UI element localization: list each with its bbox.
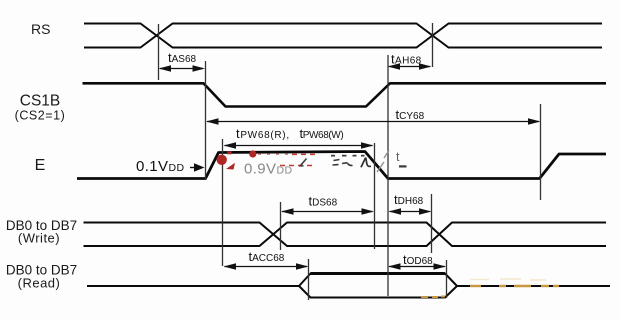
dark watermark equals mark xyxy=(333,160,340,166)
dark watermark slash mark left xyxy=(299,159,307,166)
vertical reference line at DBW valid (tDS left) xyxy=(280,202,282,250)
vertical reference line at CS1B fall / E rise start xyxy=(205,61,207,180)
orange watermark dashes on DB read hi-Z line right xyxy=(470,285,559,287)
svg-text:RS: RS xyxy=(31,21,50,37)
vertical reference line at E rise end xyxy=(222,139,224,266)
dark watermark A-like mark xyxy=(361,158,371,168)
DB0-DB7 Write waveform bus with two crossovers xyxy=(84,223,607,247)
tPW68(R) label xyxy=(236,126,290,141)
tDH68 dimension arrow xyxy=(389,208,432,214)
tAS68 dimension arrow xyxy=(159,65,206,71)
tPW68(W) label xyxy=(300,126,344,141)
E waveform xyxy=(77,152,606,179)
vertical reference line at DBR release (tOD right) xyxy=(446,260,448,298)
tAS68 label xyxy=(168,50,197,65)
svg-text:(CS2=1): (CS2=1) xyxy=(15,109,66,123)
dark nubs under E high line xyxy=(331,155,365,157)
svg-text:CS1B: CS1B xyxy=(20,93,61,110)
vertical reference line at RS change 1 xyxy=(158,24,160,80)
label CS1B xyxy=(20,93,61,110)
red dashed watermark line under E high xyxy=(280,154,319,165)
gray watermark t glyph xyxy=(396,150,407,168)
tACC68 dimension arrow xyxy=(224,263,309,269)
tPW68 dimension arrow xyxy=(224,142,374,148)
tACC68 label xyxy=(249,249,285,264)
label DB0 to DB7 (Read) xyxy=(6,263,77,291)
gray dashed diagonals across E fall xyxy=(377,151,389,173)
label DB0 to DB7 (Write) xyxy=(6,218,77,246)
vertical reference line at DBR valid (tACC right) xyxy=(308,259,310,300)
label (CS2=1) xyxy=(15,109,66,123)
svg-text:E: E xyxy=(35,157,46,174)
tOD68 label xyxy=(403,252,433,267)
tDH68 label xyxy=(394,192,424,207)
svg-text:t: t xyxy=(396,150,400,164)
tDS68 label xyxy=(309,194,338,209)
faint red flecks under E high line xyxy=(258,153,288,155)
dark watermark tilde-comma mark xyxy=(342,163,353,166)
0.1VDD label xyxy=(136,158,184,175)
orange watermark dashes on DB read bottom edge xyxy=(421,296,445,299)
svg-text:(Write): (Write) xyxy=(18,231,60,246)
red annotation dot 1 on E rising corner xyxy=(217,151,236,169)
0.1VDD pointer arrow xyxy=(190,163,205,172)
vertical reference line at RS change 2 xyxy=(432,23,434,67)
tCY68 label xyxy=(396,107,425,122)
tAH68 label xyxy=(391,52,422,67)
CS1B waveform xyxy=(83,83,607,106)
DB0-DB7 Read waveform: hi-Z line then valid-data hexagon xyxy=(87,274,610,298)
tCY68 dimension arrow xyxy=(206,118,541,124)
DB read valid top edge thick xyxy=(311,272,446,275)
label RS xyxy=(31,21,50,37)
tDS68 dimension arrow xyxy=(281,208,374,214)
tAH68 dimension arrow xyxy=(388,63,432,69)
vertical reference line at tCY68 right / E rise 2 xyxy=(540,104,542,200)
svg-text:(Read): (Read) xyxy=(18,276,61,291)
vertical reference line at DBW change 2 xyxy=(431,194,433,253)
red annotation dot 2 on E high line xyxy=(249,150,256,157)
label E xyxy=(35,157,46,174)
RS waveform bus with two crossovers xyxy=(84,24,602,48)
tOD68 dimension arrow xyxy=(388,263,446,269)
faint orange smudge above DB read line xyxy=(470,279,546,280)
0.9VDD label (faded gray) xyxy=(244,161,292,178)
vertical reference line at E fall end / tAH68 left xyxy=(387,55,389,296)
vertical reference line at E fall mid xyxy=(374,143,376,249)
